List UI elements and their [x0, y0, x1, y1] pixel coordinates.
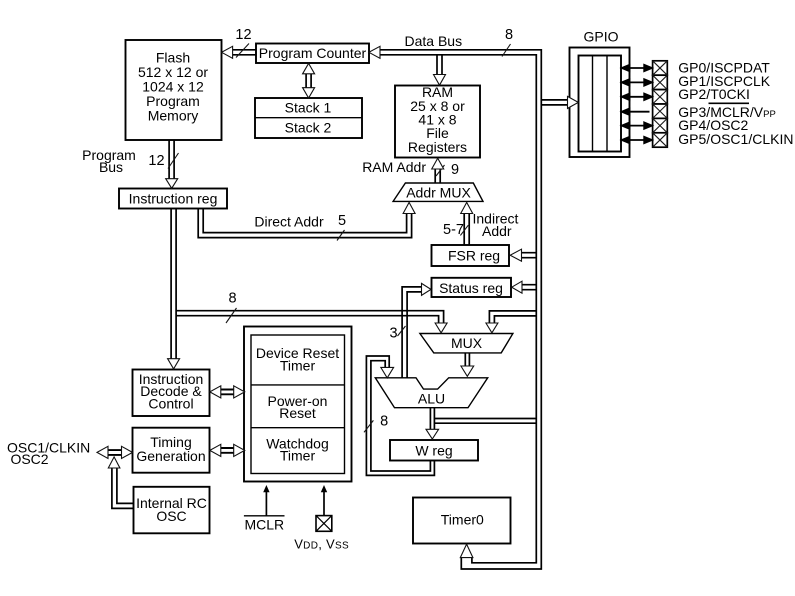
GPIO pin arrows: [622, 65, 652, 143]
svg-text:Instruction reg: Instruction reg: [129, 191, 218, 207]
wire Direct Addr bus outer: [198, 209, 411, 238]
stack divider: [255, 117, 362, 119]
svg-text:Timer0: Timer0: [441, 512, 484, 528]
pin arrow GP5: [622, 137, 652, 143]
stack box: [255, 98, 362, 138]
GPIO inner dividers: [592, 56, 594, 152]
slash 8 left bus: [226, 308, 237, 323]
slashes on buses: [168, 44, 511, 433]
wire MCLR pin line: [265, 492, 267, 516]
timing generation box: [133, 428, 210, 473]
slash 5-7 indirect: [460, 225, 468, 235]
svg-text:GP2/T0CKI: GP2/T0CKI: [678, 86, 750, 102]
svg-text:Generation: Generation: [136, 448, 205, 464]
wire Addr MUX to RAM bus: [435, 169, 440, 183]
arrowhead into Timer0 (up): [460, 544, 473, 557]
instruction reg box: [119, 189, 227, 209]
svg-text:GPIO: GPIO: [583, 29, 618, 45]
svg-text:Data Bus: Data Bus: [405, 33, 463, 49]
slash 8 W feedback: [364, 420, 373, 432]
wire W reg feedback inner: [371, 361, 431, 471]
program counter box: [256, 44, 369, 64]
wire data bus inner: [380, 55, 536, 563]
GPIO outer box: [570, 48, 630, 158]
wire Decode-Reset box bus: [221, 390, 235, 395]
arrowhead MUX to ALU (down): [461, 366, 474, 376]
svg-text:OSC: OSC: [156, 508, 186, 524]
svg-text:MUX: MUX: [451, 335, 483, 351]
slash 12 program bus: [168, 153, 179, 169]
wire W reg feedback outer: [366, 356, 434, 475]
arrowhead decode-reset right: [234, 386, 245, 398]
pin arrow GP3 input only: [622, 109, 650, 115]
MCLR overline: [244, 515, 285, 517]
solid arrowheads: [263, 485, 327, 492]
slash 12 PC-Flash: [236, 44, 249, 58]
slash 5 direct addr: [337, 230, 345, 241]
arrowhead into MUX right input (down): [486, 323, 498, 333]
wire PC-Stack bus: [306, 74, 311, 89]
reset inner dividers: [251, 384, 345, 386]
arrowhead VDD up: [321, 485, 327, 492]
pin arrow GP4: [622, 122, 652, 128]
addr mux trapezoid: [393, 183, 483, 201]
arrowhead into RAM (down): [434, 75, 446, 86]
svg-text:GP5/OSC1/CLKIN: GP5/OSC1/CLKIN: [678, 131, 793, 147]
arrowhead RC loop up: [108, 457, 120, 468]
svg-text:Program Counter: Program Counter: [259, 45, 367, 61]
internal RC OSC box: [134, 487, 210, 534]
wire Direct Addr bus inner: [203, 209, 406, 233]
arrowhead IR to decode (down): [168, 359, 180, 369]
overline over MCLR in GP3 label: [709, 102, 750, 104]
pin arrow GP2: [622, 94, 652, 100]
wire 8-bit bus IR to MUX: [176, 311, 444, 323]
svg-text:Reset: Reset: [279, 405, 316, 421]
svg-text:5-7: 5-7: [443, 222, 464, 238]
wire bus PC to Flash: [233, 50, 256, 55]
arrowhead W feedback into ALU (down): [381, 367, 394, 378]
svg-text:12: 12: [148, 153, 164, 169]
arrowhead MCLR up: [263, 485, 269, 492]
wire ALU result to right bus: [434, 419, 536, 424]
svg-text:Direct Addr: Direct Addr: [254, 213, 324, 229]
wire FSR to Addr MUX bus: [464, 214, 469, 246]
pin arrow GP1: [622, 79, 652, 85]
arrowhead timing-reset right: [234, 444, 245, 456]
W reg box: [390, 440, 478, 461]
arrowhead PC-stack down: [303, 88, 315, 98]
arrowhead into Status right (left): [512, 281, 522, 293]
wire Flash to IR program bus: [169, 140, 174, 178]
reset inner box: [251, 335, 345, 474]
wire data bus drop to RAM: [437, 55, 442, 75]
X diagonals for pin boxes: [653, 61, 668, 147]
wire bus branch to GPIO: [541, 100, 567, 105]
wire Internal RC OSC loop: [112, 468, 134, 508]
arrowhead flash to IR (down): [166, 179, 178, 189]
svg-text:8: 8: [505, 27, 513, 43]
svg-text:Bus: Bus: [99, 159, 123, 175]
svg-text:ALU: ALU: [418, 390, 445, 406]
wire data bus outer (right, down right side, to Timer0 stem): [380, 50, 541, 569]
wire OSC-Timing bus: [108, 450, 123, 455]
svg-text:MCLR: MCLR: [244, 516, 284, 532]
wire bus to Status reg right: [522, 285, 536, 290]
ALU shape: [375, 378, 487, 408]
svg-text:Timer: Timer: [280, 357, 316, 373]
FSR reg box: [432, 245, 510, 266]
svg-text:Memory: Memory: [148, 107, 199, 123]
arrowhead into Status left (right): [422, 283, 432, 295]
status reg box: [432, 278, 512, 297]
wire bus to MUX right input: [489, 311, 536, 323]
RAM file registers box: [395, 86, 480, 158]
slash 8 data bus: [502, 44, 511, 57]
svg-text:Stack 1: Stack 1: [285, 100, 332, 116]
GPIO inner box: [579, 56, 622, 152]
svg-text:W reg: W reg: [415, 443, 452, 459]
wire ALU to Status reg 3-bit bus: [402, 287, 421, 378]
slash 9 ram addr: [436, 165, 445, 176]
wire Timing-Reset box bus: [221, 448, 235, 453]
arrowhead timing-reset left: [210, 444, 221, 456]
arrowhead decode-reset left: [210, 386, 221, 398]
arrowhead osc-timing right: [122, 446, 133, 458]
svg-text:12: 12: [235, 27, 251, 43]
slash 3 status bus: [398, 326, 406, 336]
VDD VSS X-box: [316, 516, 332, 532]
svg-text:Status reg: Status reg: [439, 280, 503, 296]
svg-text:5: 5: [338, 213, 346, 229]
arrowhead into Flash (left): [222, 46, 233, 58]
pin arrow GP0: [622, 65, 652, 71]
arrowhead indirect up: [461, 202, 473, 213]
svg-text:Stack 2: Stack 2: [285, 119, 332, 135]
wire ALU output bus: [430, 408, 434, 430]
arrowhead into FSR (left): [510, 249, 521, 261]
svg-text:Registers: Registers: [408, 139, 467, 155]
svg-text:8: 8: [380, 414, 388, 430]
arrowhead osc-timing left: [97, 446, 108, 458]
flash program memory box: [126, 40, 222, 140]
wire bus to FSR reg: [522, 253, 537, 258]
arrowhead into GPIO (right): [568, 96, 579, 108]
wire MUX to ALU bus: [465, 353, 469, 366]
boxes: [119, 40, 630, 544]
instruction decode and control box: [133, 370, 210, 417]
svg-text:Addr MUX: Addr MUX: [406, 184, 471, 200]
VDD X-box diagonals: [316, 516, 332, 532]
GPIO pin X-boxes: [653, 61, 668, 147]
svg-text:RAM Addr: RAM Addr: [362, 159, 426, 175]
arrowhead direct addr up: [403, 202, 415, 213]
arrowhead PC-stack up: [303, 63, 315, 74]
arrowhead addrmux-RAM up: [432, 158, 444, 169]
wire IR to Instruction Decode bus: [171, 209, 176, 359]
svg-text:9: 9: [451, 162, 459, 178]
svg-text:Control: Control: [148, 395, 193, 411]
svg-text:Addr: Addr: [482, 223, 512, 239]
open arrowheads: [97, 46, 578, 557]
wire VDD VSS pin line: [323, 492, 325, 516]
svg-text:FSR reg: FSR reg: [448, 248, 500, 264]
Timer0 box: [413, 498, 511, 544]
arrowhead ALU to W reg (down): [426, 429, 439, 439]
arrowhead into PC (left): [369, 46, 380, 58]
svg-text:Timer: Timer: [280, 448, 316, 464]
svg-text:8: 8: [228, 291, 236, 307]
MUX trapezoid: [420, 334, 513, 353]
svg-text:3: 3: [389, 326, 397, 342]
svg-text:OSC2: OSC2: [10, 451, 48, 467]
arrowhead into MUX left input (down): [435, 323, 447, 333]
reset outer box: [244, 327, 352, 482]
